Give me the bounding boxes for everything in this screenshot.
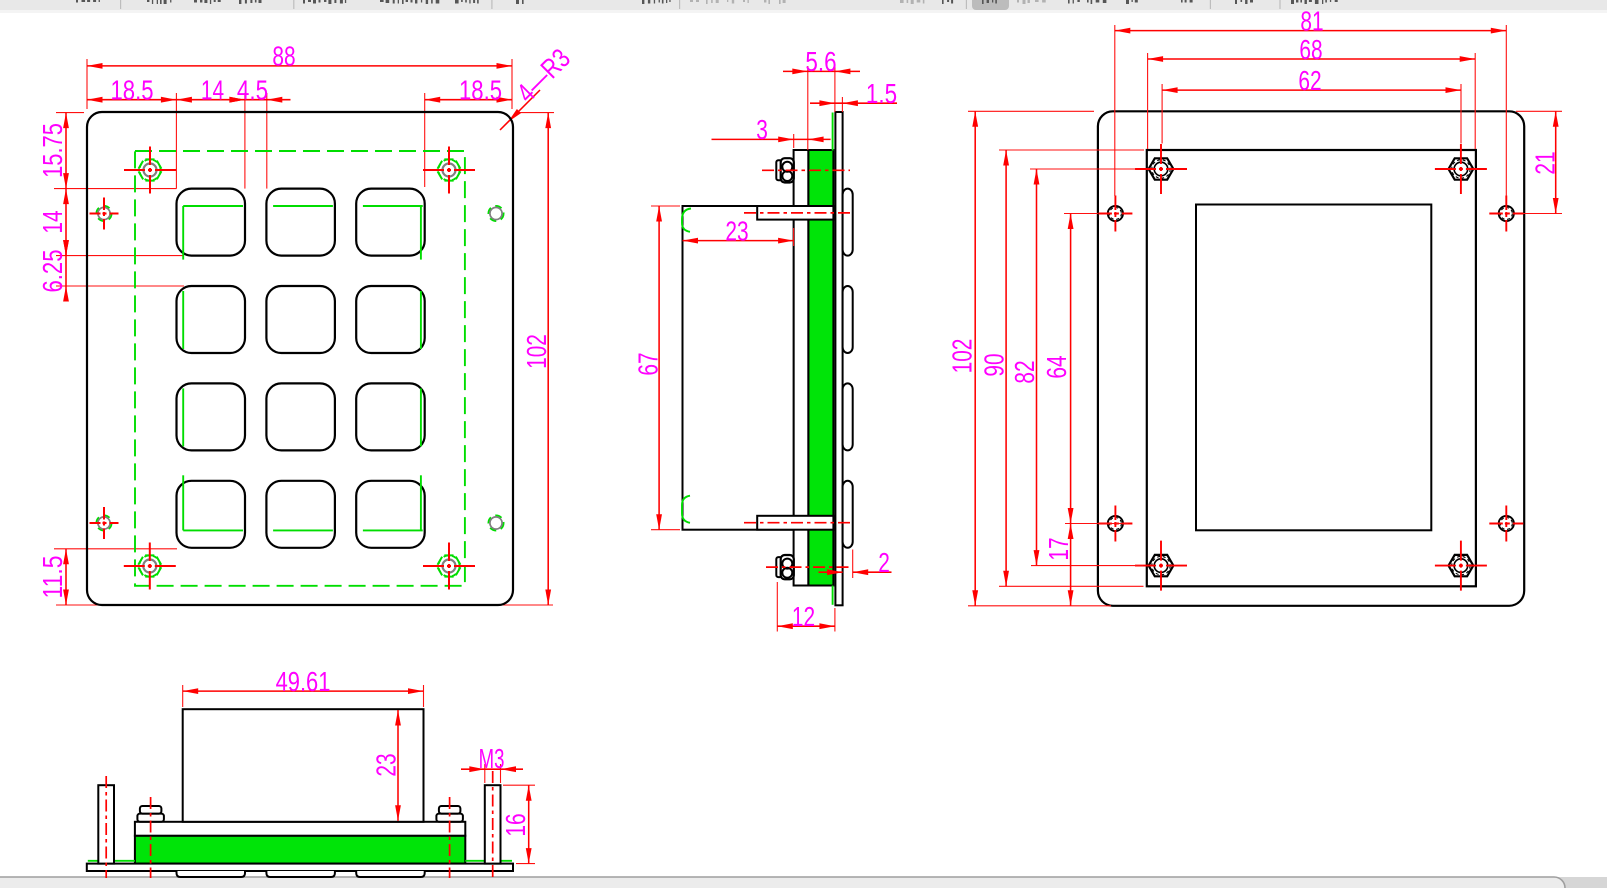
front view: key hole row 4 col 2 bbox=[266, 481, 335, 548]
rear view: dim 68 bbox=[1148, 34, 1476, 149]
svg-text:64: 64 bbox=[1041, 355, 1072, 378]
front view: left dims extension lines bbox=[54, 113, 553, 605]
rear view: dim 90 bbox=[979, 150, 1144, 586]
svg-text:1.5: 1.5 bbox=[866, 78, 897, 109]
side view: dim 23 bbox=[683, 215, 794, 246]
svg-text:18.5: 18.5 bbox=[111, 74, 154, 105]
svg-text:67: 67 bbox=[633, 352, 664, 375]
rear view: dim 102 bbox=[947, 111, 1112, 606]
bottom view: green faceplate edge line bbox=[88, 860, 512, 862]
front view: key hole row 1 col 2 bbox=[266, 189, 335, 256]
rear view: opening outline bbox=[1196, 205, 1431, 531]
svg-text:12: 12 bbox=[792, 601, 815, 632]
side view: green PCB board bbox=[808, 150, 833, 586]
svg-text:23: 23 bbox=[725, 215, 748, 246]
bottom view: screw nut right bbox=[436, 806, 463, 822]
front view: dim 88 extension lines bbox=[87, 59, 512, 109]
front view: dim 102 bbox=[521, 113, 552, 605]
svg-text:68: 68 bbox=[1299, 34, 1322, 65]
side view: dim 2 bbox=[819, 547, 892, 578]
side view: faceplate bbox=[835, 112, 842, 605]
svg-text:102: 102 bbox=[947, 339, 978, 374]
svg-text:4.5: 4.5 bbox=[237, 74, 268, 105]
front view: hex standoff top-left bbox=[124, 147, 176, 194]
side view: key tabs bbox=[843, 189, 853, 548]
svg-text:15.75: 15.75 bbox=[37, 123, 68, 178]
svg-text:5.6: 5.6 bbox=[805, 46, 836, 77]
front view: green key mat lines bbox=[183, 206, 423, 530]
bottom view: dim 23 bbox=[371, 710, 402, 821]
bottom view: mounting strip plate bbox=[135, 822, 465, 836]
toolbar menu text fragments bbox=[76, 0, 1338, 4]
rear view: mounting hole top-right bbox=[1489, 196, 1523, 232]
front view: key hole row 4 col 1 bbox=[177, 481, 246, 548]
side view: mounting strip plate bbox=[794, 150, 809, 586]
front view: dim 102 extension line bbox=[516, 112, 554, 114]
svg-text:21: 21 bbox=[1530, 151, 1561, 174]
side view: dim 1.5 bbox=[810, 78, 897, 112]
side view: dim 67 bbox=[633, 206, 680, 530]
rear view: dim 21 bbox=[1516, 111, 1562, 213]
svg-text:23: 23 bbox=[371, 753, 402, 776]
front view: 4-R3 leader and label bbox=[500, 42, 576, 130]
side view: screw centerline bottom bbox=[766, 566, 851, 568]
rear view: hex nut top-left bbox=[1135, 144, 1187, 194]
bottom view: green PCB bar bbox=[135, 836, 465, 864]
toolbar pressed button bbox=[972, 0, 1009, 10]
svg-text:3: 3 bbox=[756, 114, 768, 145]
rear view: panel outline bbox=[1098, 111, 1524, 606]
side view: standoff centerline bottom bbox=[744, 522, 851, 524]
side view: rubber keypad housing box bbox=[683, 206, 794, 530]
bottom view: dim M3 bbox=[461, 743, 523, 783]
rear view: hex nut bottom-left bbox=[1135, 541, 1187, 591]
side view: dim 12 bbox=[777, 582, 835, 632]
svg-text:6.25: 6.25 bbox=[37, 250, 68, 293]
bottom status bar track bbox=[0, 877, 1607, 888]
svg-text:88: 88 bbox=[272, 41, 295, 72]
svg-text:16: 16 bbox=[500, 813, 531, 836]
side view: standoff centerline top bbox=[744, 212, 851, 214]
front view: key hole row 4 col 3 bbox=[356, 481, 425, 548]
rear view: dim 81 bbox=[1115, 5, 1507, 196]
front view: dim 88 bbox=[87, 41, 512, 72]
svg-text:90: 90 bbox=[979, 353, 1010, 376]
front view: dim 14 vertical bbox=[37, 189, 69, 256]
front view: dim 14 bbox=[176, 74, 245, 105]
front view: hex standoff top-right bbox=[423, 147, 475, 194]
side view: dim 3 bbox=[712, 114, 831, 148]
svg-text:62: 62 bbox=[1298, 65, 1321, 96]
front view: panel outline bbox=[87, 112, 513, 605]
svg-text:14: 14 bbox=[37, 210, 68, 233]
front view: key hole row 3 col 3 bbox=[356, 383, 425, 450]
front view: side hole left-bottom bbox=[90, 507, 119, 539]
front view: dim 15.75 bbox=[37, 113, 69, 189]
front view: key hole row 2 col 2 bbox=[266, 286, 335, 353]
front view: side hole right-top bbox=[489, 206, 503, 220]
front view: dim 6.25 bbox=[37, 240, 69, 301]
front view: dim 4.5 bbox=[229, 74, 290, 105]
front view: key hole row 1 col 1 bbox=[177, 189, 246, 256]
rear view: dim 64 bbox=[1041, 214, 1128, 524]
front view: side hole left-top bbox=[90, 198, 119, 230]
front view: key hole row 2 col 1 bbox=[177, 286, 246, 353]
side view: screw nut bottom bbox=[776, 555, 794, 579]
bottom status bar rounded panel bbox=[0, 877, 1565, 888]
svg-text:2: 2 bbox=[878, 547, 890, 578]
rear view: hex nut top-right bbox=[1435, 144, 1487, 194]
side view: green faceplate edge line bbox=[832, 113, 834, 605]
side view: standoff screw boss bottom bbox=[757, 516, 833, 530]
side view: green rubber corner top bbox=[682, 209, 691, 232]
front view: side hole right-bottom bbox=[489, 516, 503, 530]
bottom view: centerlines bbox=[106, 771, 493, 878]
front view: key hole row 3 col 1 bbox=[177, 383, 246, 450]
rear view: hex nut bottom-right bbox=[1435, 541, 1487, 591]
front view: hex standoff bottom-left bbox=[124, 543, 176, 590]
front view: hex standoff bottom-right bbox=[423, 543, 475, 590]
side view: green rubber corner bottom bbox=[682, 496, 690, 523]
svg-text:18.5: 18.5 bbox=[459, 74, 502, 105]
bottom view: faceplate bar bbox=[87, 864, 513, 871]
rear view: mounting hole bottom-right bbox=[1489, 506, 1523, 542]
rear view: dim 17 bbox=[1043, 524, 1074, 606]
svg-text:49.61: 49.61 bbox=[276, 666, 331, 697]
side view: standoff screw boss top bbox=[757, 206, 833, 220]
svg-text:17: 17 bbox=[1043, 537, 1074, 560]
front view: green dashed rubber boundary bbox=[135, 151, 465, 586]
svg-text:M3: M3 bbox=[479, 743, 505, 774]
svg-text:14: 14 bbox=[201, 74, 224, 105]
front view: dim 18.5 right bbox=[425, 74, 512, 105]
bottom view: key tabs bbox=[177, 871, 425, 877]
svg-text:102: 102 bbox=[521, 334, 552, 369]
side view: dim 5.6 bbox=[783, 46, 860, 150]
front view: top row dims extension lines bbox=[176, 93, 424, 189]
bottom view: screw nut left bbox=[137, 806, 164, 822]
svg-text:82: 82 bbox=[1009, 360, 1040, 383]
rear view: dim 62 bbox=[1162, 65, 1461, 144]
front view: key hole row 1 col 3 bbox=[356, 189, 425, 256]
bottom view: corner post right bbox=[485, 785, 501, 863]
bottom view: corner post left bbox=[98, 785, 114, 863]
side view: screw centerline top bbox=[762, 169, 850, 171]
bottom view: dim 49.61 bbox=[183, 666, 424, 707]
front view: key hole row 2 col 3 bbox=[356, 286, 425, 353]
svg-text:81: 81 bbox=[1300, 5, 1323, 36]
rear view: mounting hole top-left bbox=[1098, 196, 1132, 232]
rear view: dim 82 bbox=[1009, 169, 1143, 566]
toolbar background bbox=[0, 0, 1607, 13]
rear view: housing outline bbox=[1147, 150, 1476, 586]
bottom view: dim 16 bbox=[500, 785, 535, 863]
bottom view: rubber housing box bbox=[183, 709, 424, 822]
rear view: mounting hole bottom-left bbox=[1098, 506, 1132, 542]
toolbar separators bbox=[121, 0, 1280, 9]
side view: screw nut top bbox=[776, 158, 794, 182]
front view: key hole row 3 col 2 bbox=[266, 383, 335, 450]
svg-text:11.5: 11.5 bbox=[37, 556, 68, 599]
front view: dim 18.5 left bbox=[87, 74, 176, 105]
front view: dim 11.5 bbox=[37, 549, 69, 605]
